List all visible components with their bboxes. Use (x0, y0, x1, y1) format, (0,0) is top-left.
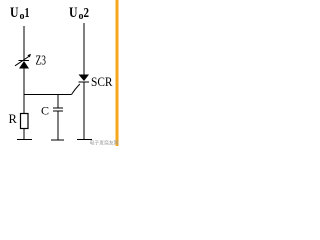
svg-text:SCR: SCR (91, 75, 113, 89)
svg-text:U: U (69, 5, 78, 21)
node Uo2 (69, 5, 89, 22)
resistor R (21, 114, 29, 129)
wire: Uo1 lead down to Z3 (23, 26, 25, 61)
wire: capacitor top lead (57, 95, 59, 108)
terminal bar under R (17, 139, 32, 141)
wire: capacitor bottom lead (57, 112, 59, 141)
capacitor C (53, 108, 63, 111)
thyristor SCR (72, 75, 90, 95)
svg-text:Z3: Z3 (36, 54, 47, 69)
terminal bar under SCR (77, 139, 92, 141)
svg-text:2: 2 (84, 5, 90, 20)
terminal bar under C (51, 139, 64, 141)
wire: SCR cathode down (83, 83, 85, 140)
svg-text:R: R (9, 112, 18, 126)
yellow page-edge strip (decor) (116, 0, 119, 146)
svg-text:1: 1 (25, 5, 30, 20)
node Uo1 (10, 5, 30, 22)
wire: R top lead (23, 95, 25, 114)
wire: Z3 down to junction (23, 69, 25, 96)
wire: R bottom lead (23, 129, 25, 140)
svg-text:U: U (10, 5, 19, 21)
zener diode Z3 (15, 54, 31, 69)
wire: horizontal junction to SCR gate branch (24, 94, 72, 96)
svg-text:电子发烧友网: 电子发烧友网 (90, 139, 119, 146)
svg-text:C: C (41, 103, 49, 117)
wire: Uo2 lead down to SCR (83, 23, 85, 75)
